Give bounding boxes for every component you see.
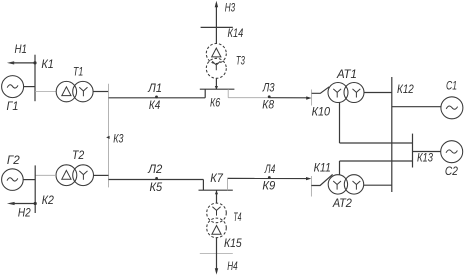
svg-text:Н3: Н3	[225, 0, 236, 14]
load arrow Н2	[7, 202, 37, 205]
breaker marker К4	[155, 96, 158, 99]
svg-text:К2: К2	[42, 193, 54, 207]
svg-text:К13: К13	[417, 150, 433, 164]
breaker К3 line with marker	[106, 84, 109, 188]
svg-text:АТ1: АТ1	[336, 67, 357, 81]
breaker marker К9	[268, 176, 271, 179]
wire Т3 to bus К6	[215, 78, 218, 89]
svg-text:Н1: Н1	[15, 42, 27, 56]
system С2	[441, 141, 463, 163]
svg-text:К3: К3	[113, 131, 123, 145]
autotransformer АТ1	[328, 83, 364, 103]
svg-text:Т2: Т2	[72, 148, 85, 162]
load arrow Н3	[215, 1, 218, 44]
wire bus to Т1	[35, 91, 56, 93]
svg-text:Н2: Н2	[18, 206, 31, 220]
svg-text:С2: С2	[445, 164, 458, 178]
wire Г1 to bus	[24, 86, 35, 88]
breaker tick К10	[311, 90, 313, 106]
wire Т1 to node К3	[93, 91, 108, 93]
autotransformer АТ2	[328, 175, 364, 194]
wire jog Л1 to К6	[204, 89, 206, 98]
wire Г2 to bus	[23, 179, 35, 181]
svg-text:Н4: Н4	[227, 259, 238, 273]
wire АТ1 to К13	[340, 142, 413, 144]
wire АТ2 tertiary stub	[339, 161, 341, 175]
generator Г2	[2, 169, 24, 191]
wire К13 to С2	[413, 151, 441, 153]
svg-text:К5: К5	[150, 180, 163, 194]
svg-text:Г1: Г1	[7, 99, 19, 113]
transformer Т2	[56, 165, 94, 186]
wire АТ2 to bus К12	[364, 184, 392, 186]
wire jog К7 to Л4	[227, 178, 229, 190]
svg-text:Т3: Т3	[236, 53, 245, 67]
svg-text:К7: К7	[210, 171, 224, 185]
bus К6	[200, 88, 235, 90]
wire АТ1 to bus К12	[364, 92, 392, 94]
breaker tick К11	[310, 176, 312, 197]
svg-text:АТ2: АТ2	[332, 196, 352, 210]
bus К13	[412, 134, 414, 168]
generator Г1	[2, 76, 24, 98]
svg-text:К6: К6	[210, 95, 220, 109]
breaker tick К14	[201, 26, 233, 28]
bus left-bottom	[34, 165, 36, 213]
bus К12	[391, 77, 393, 192]
bus left-top	[34, 55, 36, 101]
wire bus К7 to Т4	[215, 190, 218, 203]
bus К7	[199, 189, 233, 191]
svg-text:Л1: Л1	[147, 81, 162, 95]
svg-text:К4: К4	[149, 98, 161, 112]
wire К11 blade to АТ2	[311, 174, 332, 185]
svg-text:К12: К12	[397, 82, 414, 96]
svg-text:К9: К9	[262, 178, 275, 192]
breaker tick К15	[200, 253, 233, 255]
svg-text:К1: К1	[41, 57, 53, 71]
wire АТ2 to К13	[340, 160, 413, 162]
wire Т2 to node К3	[94, 174, 109, 176]
svg-text:К15: К15	[224, 236, 242, 250]
line Л3 with arrow	[228, 96, 311, 99]
transformer Т3	[206, 44, 226, 79]
wire АТ1 tertiary stub	[339, 102, 341, 143]
svg-text:Л2: Л2	[147, 162, 162, 176]
load arrow Н4	[215, 238, 218, 275]
svg-text:К11: К11	[314, 161, 331, 175]
wire jog К6 to Л3	[227, 89, 229, 98]
wire bus to Т2	[35, 174, 56, 176]
wire bus К12 to С1	[392, 106, 441, 108]
system С1	[441, 97, 463, 119]
line Л1	[109, 97, 206, 99]
load arrow Н1	[7, 61, 37, 64]
svg-text:К14: К14	[228, 26, 244, 40]
wire К10 blade to АТ1	[312, 87, 330, 94]
svg-text:К8: К8	[262, 98, 274, 112]
breaker marker К8	[268, 95, 271, 98]
wire jog Л2 to К7	[202, 180, 204, 191]
svg-text:Л3: Л3	[262, 81, 275, 95]
line Л4 with arrow	[228, 177, 312, 180]
line Л2	[109, 179, 204, 181]
svg-text:К10: К10	[312, 105, 331, 119]
svg-text:Т4: Т4	[233, 210, 241, 224]
svg-text:Г2: Г2	[7, 153, 20, 167]
breaker marker К5	[155, 177, 158, 180]
svg-text:Т1: Т1	[73, 65, 83, 79]
transformer Т1	[56, 81, 93, 101]
svg-text:Л4: Л4	[264, 162, 275, 176]
transformer Т4	[207, 203, 227, 238]
svg-text:С1: С1	[446, 79, 457, 93]
